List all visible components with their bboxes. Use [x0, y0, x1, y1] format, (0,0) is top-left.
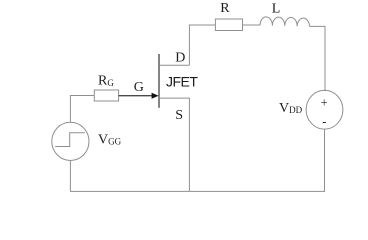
JFET channel bar [158, 54, 160, 108]
svg-text:R: R [220, 1, 230, 16]
inductor L [260, 17, 310, 26]
svg-text:L: L [272, 1, 281, 16]
svg-text:+: + [321, 96, 328, 110]
wire top rail left segment [189, 25, 215, 65]
resistor R [215, 19, 242, 31]
bottom rail wire [70, 190, 325, 192]
gate arrowhead [152, 93, 159, 99]
voltage source V_GG circle [52, 122, 89, 160]
JFET drain lead [159, 64, 189, 66]
wire VDD bottom to bottom rail [324, 129, 326, 191]
svg-text:VGG: VGG [98, 132, 122, 147]
svg-text:G: G [134, 80, 144, 95]
wire inductor to right corner and down to VDD [310, 26, 326, 91]
svg-text:-: - [322, 114, 326, 128]
svg-text:RG: RG [98, 74, 114, 89]
JFET source lead [159, 98, 189, 191]
step waveform symbol inside VGG [55, 133, 85, 147]
svg-text:JFET: JFET [166, 73, 198, 89]
svg-text:S: S [175, 108, 183, 123]
wire resistor to inductor [243, 24, 261, 26]
svg-text:VDD: VDD [279, 101, 303, 116]
svg-text:D: D [175, 50, 185, 65]
wire VGG bottom to bottom rail [69, 160, 71, 191]
resistor R_G [94, 90, 118, 101]
wire RG to gate arrow [119, 95, 154, 97]
wire VGG top to gate corner [70, 96, 94, 123]
voltage source V_DD circle [306, 90, 343, 129]
